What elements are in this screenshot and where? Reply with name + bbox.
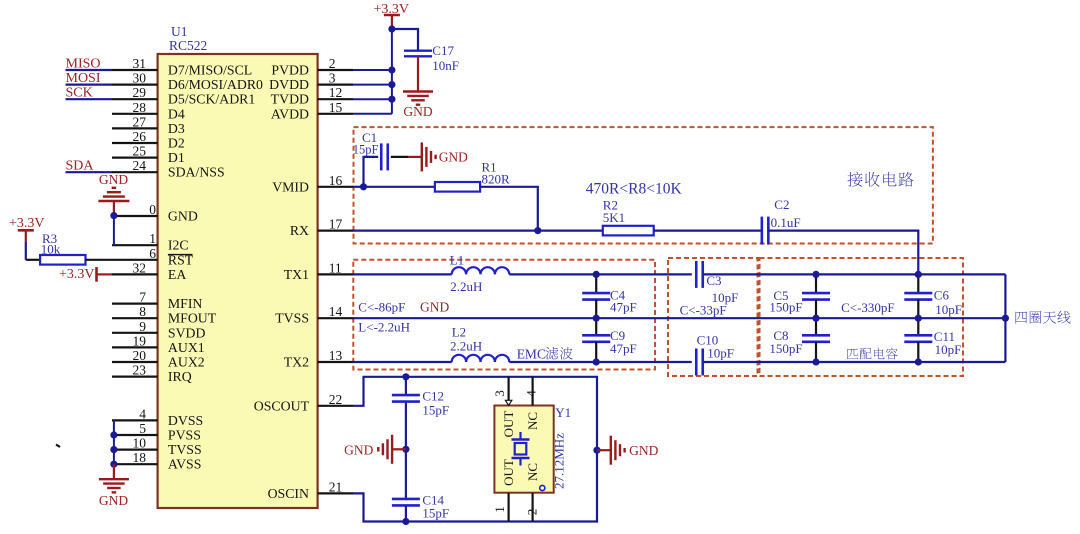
svg-text:2.2uH: 2.2uH <box>450 339 482 354</box>
svg-text:27.12MHz: 27.12MHz <box>552 433 567 489</box>
svg-text:AUX2: AUX2 <box>168 355 205 370</box>
svg-text:MFOUT: MFOUT <box>168 311 217 326</box>
svg-text:2: 2 <box>329 56 336 71</box>
svg-text:AUX1: AUX1 <box>168 340 205 355</box>
svg-text:SCK: SCK <box>66 86 93 101</box>
svg-text:11: 11 <box>329 260 342 275</box>
svg-text:6: 6 <box>149 246 156 261</box>
svg-text:OSCIN: OSCIN <box>268 486 309 501</box>
svg-text:150pF: 150pF <box>769 341 802 356</box>
svg-text:EA: EA <box>168 267 186 282</box>
svg-text:15pF: 15pF <box>422 506 449 521</box>
svg-text:TVSS: TVSS <box>275 311 309 326</box>
svg-text:47pF: 47pF <box>610 341 637 356</box>
svg-text:23: 23 <box>133 363 147 378</box>
svg-text:OUT: OUT <box>501 459 516 486</box>
svg-text:20: 20 <box>133 348 147 363</box>
svg-text:28: 28 <box>133 100 147 115</box>
svg-text:C12: C12 <box>422 389 444 404</box>
svg-text:GND: GND <box>403 104 432 119</box>
svg-text:2: 2 <box>525 509 540 516</box>
svg-text:24: 24 <box>133 158 147 173</box>
svg-text:EMC: EMC <box>517 347 546 362</box>
svg-text:22: 22 <box>329 392 343 407</box>
svg-text:27: 27 <box>133 114 147 129</box>
svg-text:1: 1 <box>149 231 156 246</box>
svg-text:470R<R8<10K: 470R<R8<10K <box>586 181 683 198</box>
svg-text:5K1: 5K1 <box>603 210 625 225</box>
svg-text:2.2uH: 2.2uH <box>450 279 482 294</box>
svg-text:PVDD: PVDD <box>271 63 309 78</box>
svg-text:30: 30 <box>133 71 147 86</box>
svg-text:26: 26 <box>133 129 147 144</box>
svg-text:L1: L1 <box>450 253 464 268</box>
svg-text:U1: U1 <box>171 24 188 39</box>
svg-text:SDA: SDA <box>66 159 95 174</box>
svg-text:GND: GND <box>344 443 373 458</box>
svg-text:Y1: Y1 <box>555 405 571 420</box>
svg-text:820R: 820R <box>482 172 511 187</box>
svg-text:MISO: MISO <box>66 57 101 72</box>
svg-text:10pF: 10pF <box>935 302 962 317</box>
svg-text:16: 16 <box>329 173 343 188</box>
svg-text:4: 4 <box>139 406 146 421</box>
svg-text:C2: C2 <box>774 197 789 212</box>
svg-text:NC: NC <box>525 463 540 481</box>
svg-text:I2C: I2C <box>168 238 189 253</box>
svg-text:17: 17 <box>329 217 343 232</box>
svg-text:TX1: TX1 <box>284 267 309 282</box>
svg-text:19: 19 <box>133 333 147 348</box>
svg-text:1: 1 <box>492 506 507 513</box>
svg-text:C17: C17 <box>432 43 454 58</box>
svg-text:4: 4 <box>524 390 539 397</box>
svg-text:15pF: 15pF <box>353 143 379 157</box>
svg-text:RC522: RC522 <box>169 38 207 53</box>
svg-text:12: 12 <box>329 85 343 100</box>
svg-text:D4: D4 <box>168 106 185 121</box>
svg-text:18: 18 <box>133 450 147 465</box>
svg-text:IRQ: IRQ <box>168 369 192 384</box>
svg-text:MFIN: MFIN <box>168 296 203 311</box>
svg-text:PVSS: PVSS <box>168 428 201 443</box>
svg-text:GND: GND <box>168 209 198 224</box>
svg-text:TVDD: TVDD <box>271 92 309 107</box>
svg-text:GND: GND <box>629 443 658 458</box>
svg-text:TX2: TX2 <box>284 355 309 370</box>
svg-text:L<-2.2uH: L<-2.2uH <box>358 320 410 335</box>
svg-text:VMID: VMID <box>272 179 309 194</box>
svg-text:5: 5 <box>139 421 146 436</box>
svg-text:150pF: 150pF <box>769 300 802 315</box>
svg-text:10k: 10k <box>41 242 61 257</box>
svg-text:D7/MISO/SCL: D7/MISO/SCL <box>168 63 252 78</box>
svg-text:OSCOUT: OSCOUT <box>254 398 310 413</box>
svg-text:D6/MOSI/ADR0: D6/MOSI/ADR0 <box>168 77 263 92</box>
svg-text:15pF: 15pF <box>422 403 449 418</box>
svg-text:0.1uF: 0.1uF <box>771 215 801 230</box>
svg-text:DVDD: DVDD <box>269 77 309 92</box>
svg-text:13: 13 <box>329 348 343 363</box>
svg-text:+3.3V: +3.3V <box>9 216 45 231</box>
svg-text:SDA/NSS: SDA/NSS <box>168 165 225 180</box>
svg-text:C6: C6 <box>934 288 950 303</box>
svg-text:10: 10 <box>133 436 147 451</box>
svg-text:3: 3 <box>329 71 336 86</box>
svg-text:SVDD: SVDD <box>168 325 206 340</box>
svg-text:9: 9 <box>139 319 146 334</box>
svg-text:D5/SCK/ADR1: D5/SCK/ADR1 <box>168 92 255 107</box>
svg-text:10nF: 10nF <box>432 58 459 73</box>
svg-text:14: 14 <box>329 304 343 319</box>
svg-text:32: 32 <box>133 260 147 275</box>
svg-text:7: 7 <box>139 290 146 305</box>
svg-text:21: 21 <box>329 479 343 494</box>
svg-text:GND: GND <box>99 172 128 187</box>
svg-text:GND: GND <box>99 493 128 508</box>
svg-text:47pF: 47pF <box>610 300 637 315</box>
svg-text:C3: C3 <box>706 273 721 288</box>
svg-text:D1: D1 <box>168 150 185 165</box>
svg-text:MOSI: MOSI <box>66 71 101 86</box>
svg-text:D3: D3 <box>168 121 185 136</box>
svg-text:10pF: 10pF <box>935 342 962 357</box>
svg-text:TVSS: TVSS <box>168 442 202 457</box>
svg-text:25: 25 <box>133 144 147 159</box>
svg-text:31: 31 <box>133 56 147 71</box>
svg-text:+3.3V: +3.3V <box>59 267 95 282</box>
svg-text:15: 15 <box>329 100 343 115</box>
svg-text:RX: RX <box>290 223 309 238</box>
svg-text:OUT: OUT <box>501 411 516 438</box>
svg-text:GND: GND <box>420 300 449 315</box>
svg-text:0: 0 <box>149 202 156 217</box>
svg-text:AVDD: AVDD <box>271 106 309 121</box>
svg-text:C<-330pF: C<-330pF <box>841 300 895 315</box>
svg-text:10pF: 10pF <box>707 346 734 361</box>
svg-text:DVSS: DVSS <box>168 413 203 428</box>
svg-text:AVSS: AVSS <box>168 457 202 472</box>
svg-text:GND: GND <box>439 150 468 165</box>
svg-text:3: 3 <box>492 390 507 397</box>
svg-text:C<-86pF: C<-86pF <box>358 300 405 315</box>
svg-text:L2: L2 <box>452 325 466 340</box>
svg-text:C<-33pF: C<-33pF <box>680 303 727 318</box>
svg-text:NC: NC <box>525 412 540 430</box>
svg-text:29: 29 <box>133 85 147 100</box>
svg-text:8: 8 <box>139 304 146 319</box>
svg-text:D2: D2 <box>168 136 185 151</box>
